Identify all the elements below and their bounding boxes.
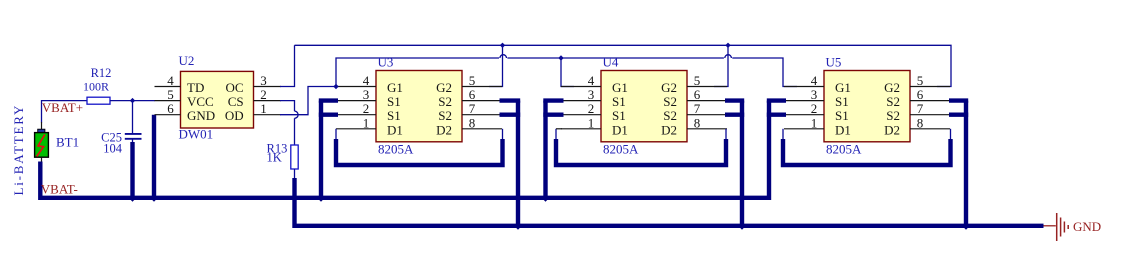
svg-text:S1: S1 bbox=[387, 108, 401, 123]
svg-text:GND: GND bbox=[1073, 219, 1101, 234]
svg-text:S1: S1 bbox=[612, 108, 626, 123]
svg-text:S2: S2 bbox=[438, 108, 452, 123]
svg-text:5: 5 bbox=[167, 87, 174, 102]
svg-text:Li-BATTERY: Li-BATTERY bbox=[11, 104, 26, 196]
svg-text:100R: 100R bbox=[83, 80, 109, 94]
svg-text:S1: S1 bbox=[612, 94, 626, 109]
svg-text:DW01: DW01 bbox=[179, 127, 214, 142]
svg-text:7: 7 bbox=[469, 101, 476, 116]
svg-text:G1: G1 bbox=[387, 80, 403, 95]
svg-text:5: 5 bbox=[917, 73, 924, 88]
svg-text:1K: 1K bbox=[267, 151, 282, 165]
svg-text:6: 6 bbox=[167, 101, 174, 116]
svg-text:S1: S1 bbox=[835, 94, 849, 109]
svg-text:8205A: 8205A bbox=[378, 141, 414, 156]
svg-text:4: 4 bbox=[811, 73, 818, 88]
svg-text:3: 3 bbox=[260, 73, 267, 88]
svg-text:5: 5 bbox=[694, 73, 701, 88]
svg-text:1: 1 bbox=[363, 115, 370, 130]
svg-text:7: 7 bbox=[694, 101, 701, 116]
svg-text:D1: D1 bbox=[387, 122, 403, 137]
svg-text:D1: D1 bbox=[835, 122, 851, 137]
svg-text:CS: CS bbox=[228, 94, 244, 109]
svg-text:R12: R12 bbox=[91, 66, 112, 80]
svg-text:G2: G2 bbox=[436, 80, 452, 95]
svg-text:6: 6 bbox=[917, 87, 924, 102]
svg-text:8: 8 bbox=[917, 115, 924, 130]
svg-text:7: 7 bbox=[917, 101, 924, 116]
svg-text:G2: G2 bbox=[661, 80, 677, 95]
svg-text:U5: U5 bbox=[826, 55, 842, 70]
svg-text:2: 2 bbox=[588, 101, 595, 116]
svg-text:VBAT+: VBAT+ bbox=[42, 100, 83, 115]
svg-text:S2: S2 bbox=[663, 94, 677, 109]
svg-text:5: 5 bbox=[469, 73, 476, 88]
svg-text:D1: D1 bbox=[612, 122, 628, 137]
svg-text:G2: G2 bbox=[884, 80, 900, 95]
svg-text:OD: OD bbox=[225, 108, 244, 123]
svg-text:2: 2 bbox=[811, 101, 818, 116]
svg-text:VCC: VCC bbox=[187, 94, 214, 109]
svg-text:3: 3 bbox=[363, 87, 370, 102]
svg-text:OC: OC bbox=[226, 80, 244, 95]
svg-text:104: 104 bbox=[103, 142, 123, 156]
svg-text:GND: GND bbox=[187, 108, 215, 123]
svg-text:D2: D2 bbox=[436, 122, 452, 137]
svg-text:2: 2 bbox=[363, 101, 370, 116]
svg-text:D2: D2 bbox=[884, 122, 900, 137]
svg-text:S2: S2 bbox=[438, 94, 452, 109]
svg-text:TD: TD bbox=[187, 80, 204, 95]
svg-text:U2: U2 bbox=[179, 53, 195, 68]
svg-text:G1: G1 bbox=[612, 80, 628, 95]
svg-text:3: 3 bbox=[588, 87, 595, 102]
svg-text:S2: S2 bbox=[886, 94, 900, 109]
svg-text:6: 6 bbox=[694, 87, 701, 102]
svg-text:1: 1 bbox=[811, 115, 818, 130]
svg-text:2: 2 bbox=[260, 87, 267, 102]
svg-text:S1: S1 bbox=[387, 94, 401, 109]
svg-text:8205A: 8205A bbox=[826, 141, 862, 156]
svg-text:4: 4 bbox=[588, 73, 595, 88]
svg-text:U4: U4 bbox=[603, 55, 619, 70]
svg-text:8205A: 8205A bbox=[603, 141, 639, 156]
svg-text:S1: S1 bbox=[835, 108, 849, 123]
svg-text:8: 8 bbox=[694, 115, 701, 130]
svg-text:S2: S2 bbox=[663, 108, 677, 123]
svg-text:BT1: BT1 bbox=[56, 135, 79, 150]
svg-text:U3: U3 bbox=[378, 55, 394, 70]
svg-text:3: 3 bbox=[811, 87, 818, 102]
svg-text:1: 1 bbox=[588, 115, 595, 130]
svg-text:1: 1 bbox=[260, 101, 267, 116]
svg-text:4: 4 bbox=[167, 73, 174, 88]
svg-text:S2: S2 bbox=[886, 108, 900, 123]
svg-text:G1: G1 bbox=[835, 80, 851, 95]
svg-text:VBAT-: VBAT- bbox=[41, 182, 78, 197]
svg-text:6: 6 bbox=[469, 87, 476, 102]
svg-text:D2: D2 bbox=[661, 122, 677, 137]
svg-text:4: 4 bbox=[363, 73, 370, 88]
svg-text:8: 8 bbox=[469, 115, 476, 130]
